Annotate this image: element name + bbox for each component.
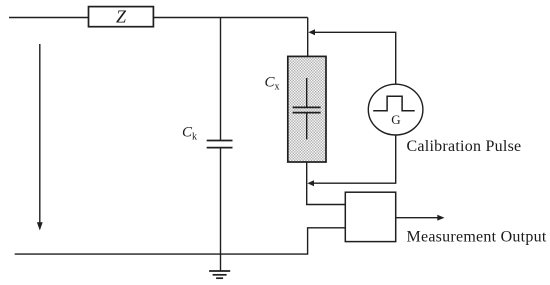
svg-text:G: G — [391, 112, 400, 127]
svg-text:Z: Z — [116, 7, 127, 27]
svg-text:Measurement Output: Measurement Output — [407, 229, 547, 246]
svg-text:Calibration Pulse: Calibration Pulse — [407, 138, 522, 155]
